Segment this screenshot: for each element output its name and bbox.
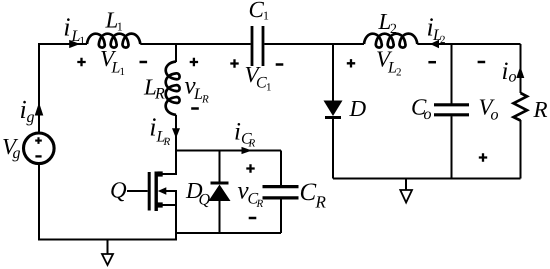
label D_Q xyxy=(186,183,210,207)
capacitor C1 xyxy=(252,26,263,66)
transistor Q body arrow xyxy=(158,187,176,206)
source V_g xyxy=(24,133,55,164)
minus inside Vg xyxy=(35,155,41,157)
minus V_C1 xyxy=(276,63,284,66)
label i_L2 xyxy=(428,18,445,43)
wire resonant-cell bottom xyxy=(176,232,281,234)
plus V_o xyxy=(479,153,487,161)
label D xyxy=(349,101,366,116)
label i_CR xyxy=(235,123,255,147)
capacitor CR xyxy=(263,187,299,198)
minus v_LR xyxy=(191,107,199,110)
label V_o xyxy=(480,99,498,119)
label L2 xyxy=(378,14,396,33)
wire drain lead xyxy=(160,151,176,175)
ground (bottom left) xyxy=(102,240,113,266)
label Co xyxy=(412,99,431,119)
label V_L1 xyxy=(101,51,124,75)
plus V_C1 xyxy=(230,59,238,67)
wire C1 to L2 xyxy=(264,43,364,45)
arrow i_L2 (pointing left) xyxy=(430,40,439,48)
label i_LR xyxy=(151,118,170,145)
label v_LR xyxy=(185,82,209,102)
wire LR to node B xyxy=(175,115,177,151)
arrow i_CR (pointing right) xyxy=(242,147,253,154)
plus V_L1 xyxy=(77,58,85,66)
transistor Q drain pad xyxy=(158,171,163,176)
plus v_CR xyxy=(246,164,254,172)
wire source lead xyxy=(160,205,176,240)
label L1 xyxy=(105,12,122,30)
diode D cathode bar xyxy=(325,116,341,119)
transistor Q gate bar xyxy=(148,172,151,211)
diode D triangle xyxy=(324,101,343,117)
wire Co lower xyxy=(451,116,453,178)
wire right branch upper xyxy=(520,44,522,93)
inductor L1 xyxy=(87,34,140,48)
wire bottom-right xyxy=(333,178,521,180)
label C_R xyxy=(301,183,326,207)
label L_R xyxy=(144,79,165,98)
wire top-left corner xyxy=(39,44,87,45)
wire node A down to LR xyxy=(175,44,177,62)
plus V_L2 xyxy=(347,59,355,67)
arrow i_LR (pointing down) xyxy=(172,128,180,138)
label V_C1 xyxy=(246,67,271,91)
wire L2 to top-right corner xyxy=(417,43,520,45)
label i_g xyxy=(21,101,34,126)
label i_o xyxy=(503,62,516,81)
arrow i_g (pointing up) xyxy=(35,103,44,116)
transistor Q channel bar xyxy=(154,172,157,212)
transistor Q gate lead xyxy=(127,190,148,192)
ground (bottom right) xyxy=(400,179,412,203)
wire left branch upper xyxy=(38,44,40,132)
capacitor Co xyxy=(434,105,469,115)
wire CR lower xyxy=(280,199,282,233)
arrow i_o (pointing up) xyxy=(516,66,524,78)
wire resonant-cell top xyxy=(176,150,281,152)
plus inside Vg xyxy=(35,137,42,144)
plus v_LR xyxy=(190,58,198,66)
wire D branch upper xyxy=(332,44,334,101)
label V_g xyxy=(3,139,20,161)
minus V_o xyxy=(478,61,486,64)
wire CR upper xyxy=(280,151,282,186)
resistor R xyxy=(514,93,528,121)
diode DQ triangle xyxy=(209,185,231,202)
arrow i_L1 (pointing right) xyxy=(69,40,80,48)
wire DQ lower xyxy=(219,200,221,233)
label i_L1 xyxy=(65,18,85,44)
wire L1 to C1 xyxy=(140,43,250,45)
wire bottom-left xyxy=(38,239,177,241)
minus v_CR xyxy=(249,217,257,220)
wire left branch lower xyxy=(38,165,40,240)
label v_CR xyxy=(238,187,263,207)
minus V_L1 xyxy=(140,61,148,64)
inductor LR (vertical) xyxy=(166,62,180,115)
label R xyxy=(533,102,547,117)
label V_L2 xyxy=(377,51,401,75)
wire DQ upper xyxy=(219,151,221,182)
label C1 xyxy=(250,2,268,20)
minus V_L2 xyxy=(428,61,436,64)
wire Co upper xyxy=(451,44,453,104)
wire D branch lower xyxy=(332,119,334,179)
inductor L2 xyxy=(364,34,417,48)
transistor Q source pad xyxy=(158,202,163,207)
wire right branch lower xyxy=(520,120,522,179)
label Q xyxy=(111,182,126,201)
diode DQ cathode bar xyxy=(211,182,229,185)
